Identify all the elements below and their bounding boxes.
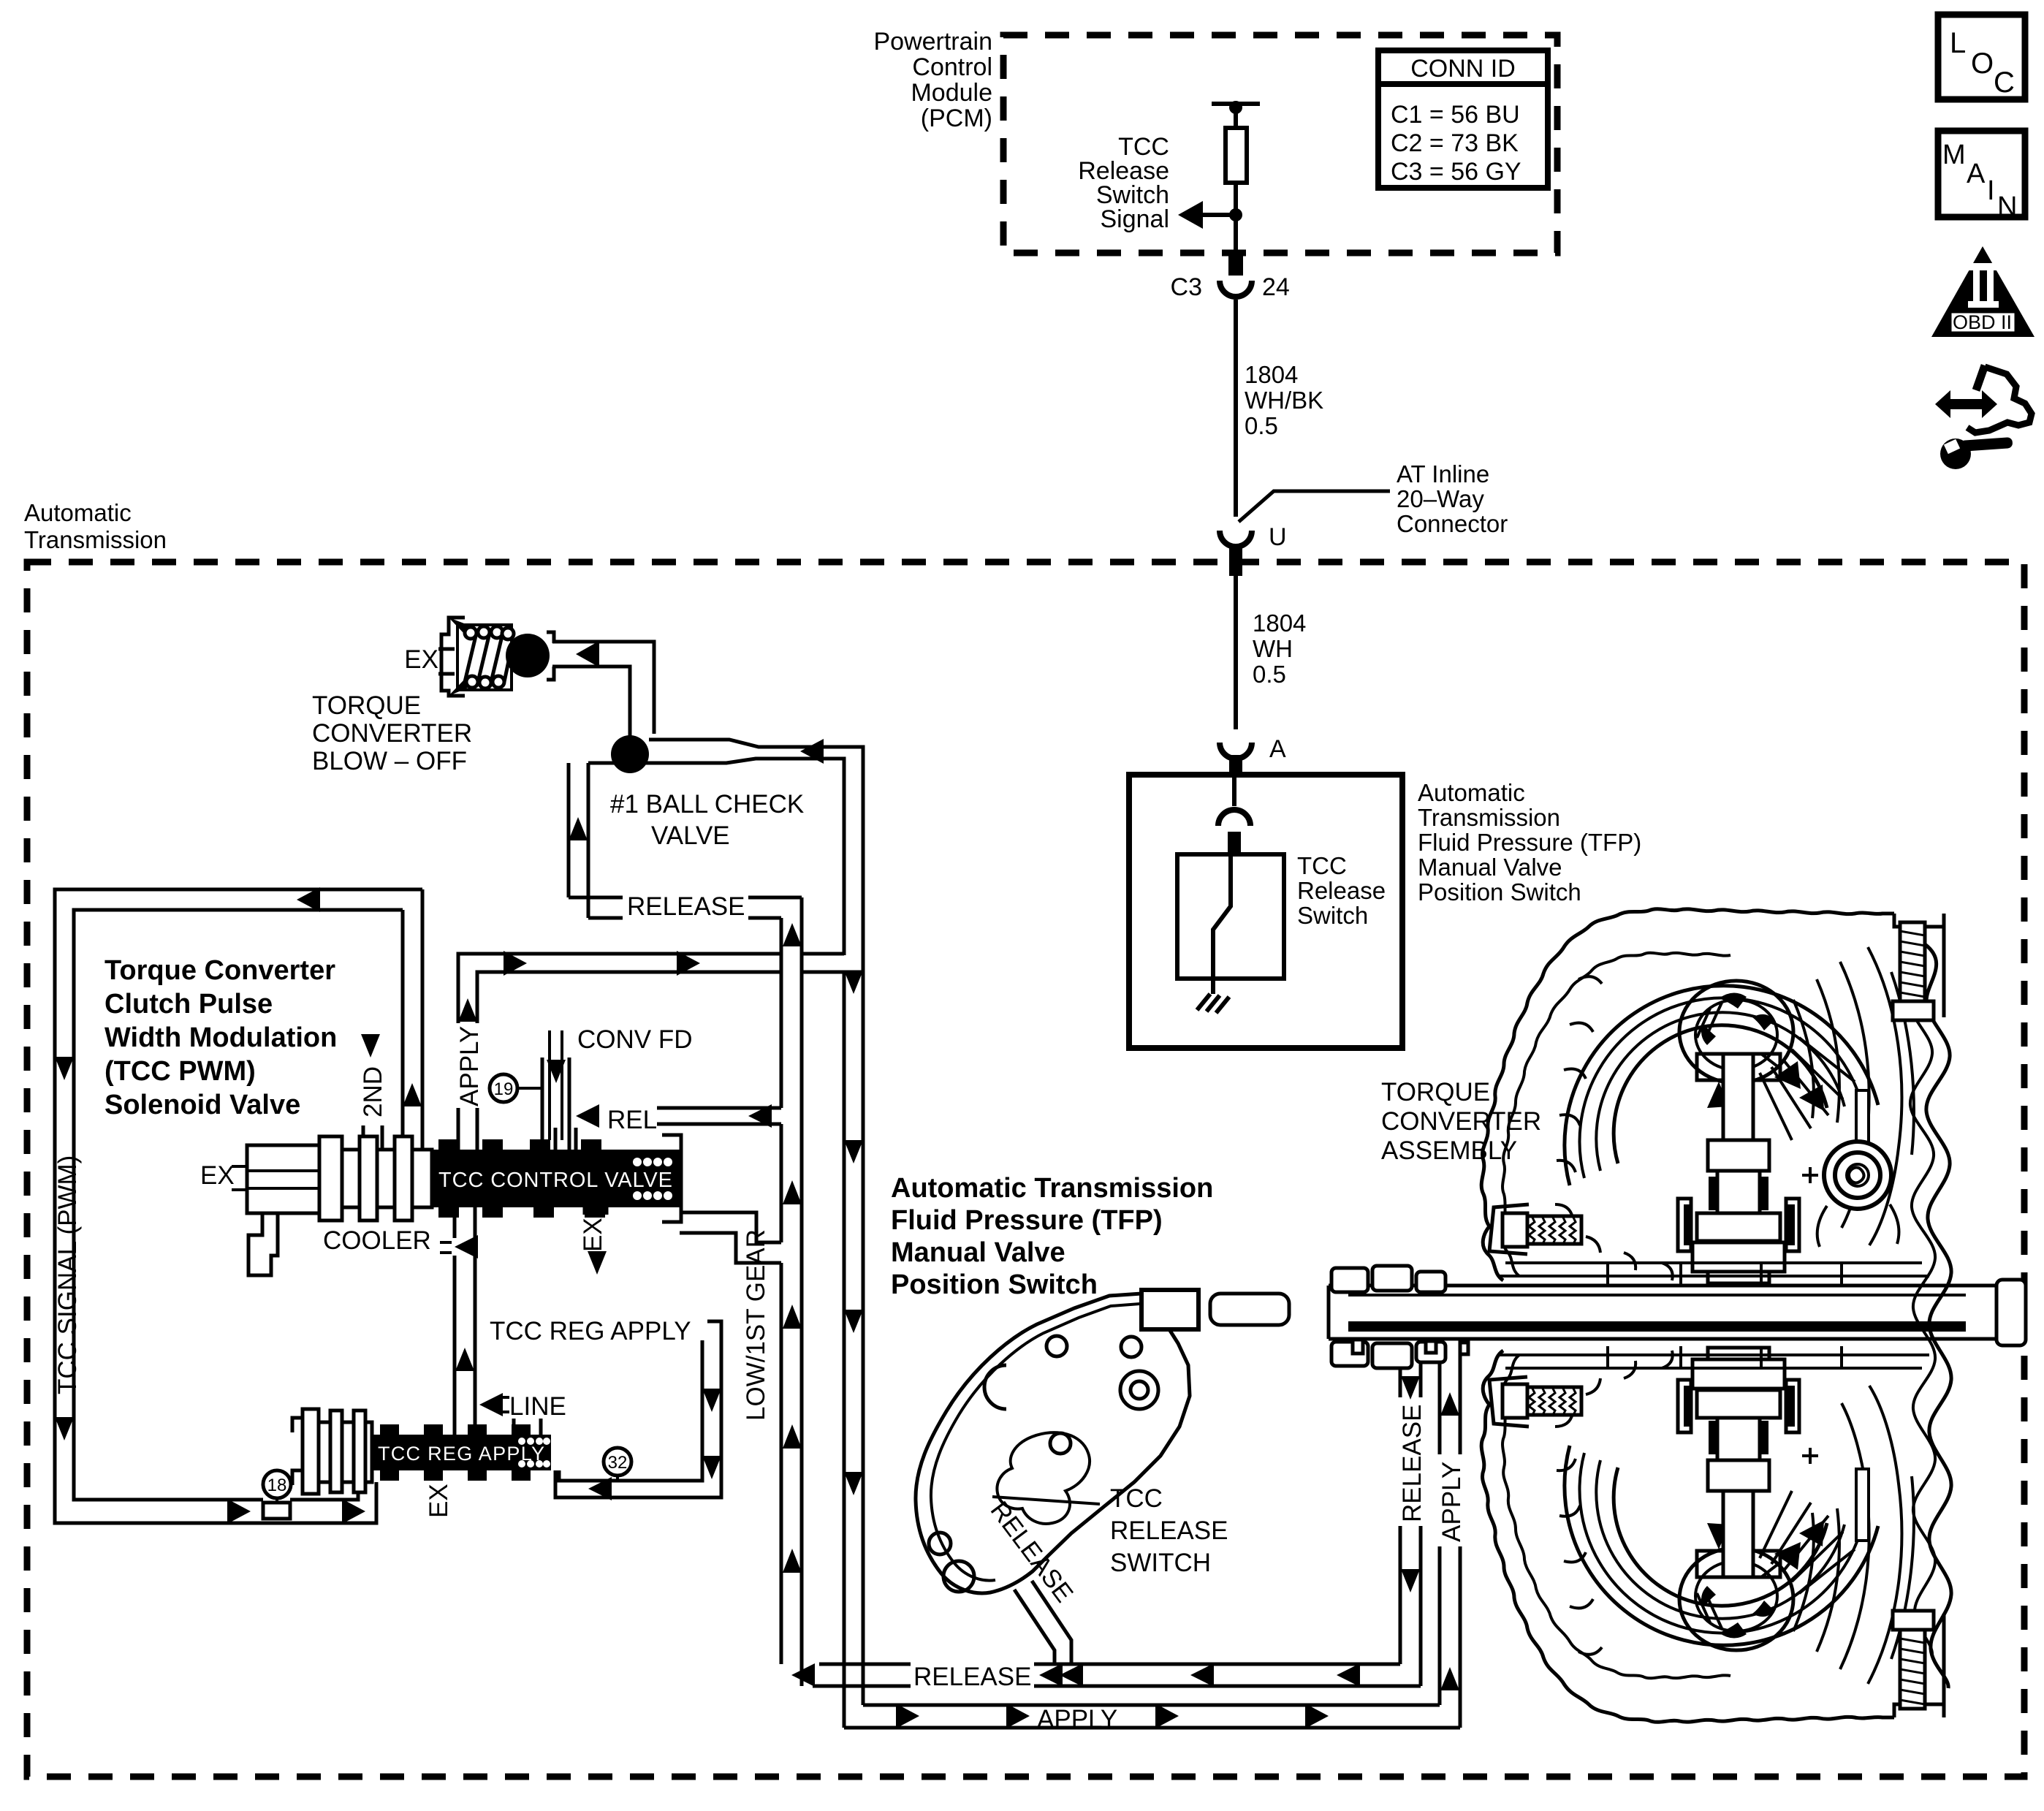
svg-text:Control: Control [912,53,992,81]
svg-text:RELEASE: RELEASE [1110,1516,1228,1545]
svg-text:CONN ID: CONN ID [1410,55,1516,83]
svg-text:Switch: Switch [1297,902,1368,929]
svg-text:Clutch Pulse: Clutch Pulse [105,989,273,1020]
svg-text:2ND: 2ND [359,1066,387,1117]
svg-text:U: U [1269,523,1287,551]
svg-text:C: C [1994,67,2015,99]
svg-text:TORQUE: TORQUE [1381,1078,1490,1106]
svg-text:CONVERTER: CONVERTER [1381,1107,1541,1136]
svg-text:1804: 1804 [1253,610,1306,637]
svg-text:TCC: TCC [1110,1484,1163,1513]
svg-text:32: 32 [608,1453,628,1473]
svg-text:TCC: TCC [1297,852,1347,879]
svg-text:APPLY: APPLY [455,1026,484,1106]
svg-text:EX: EX [200,1161,235,1190]
svg-text:L: L [1950,27,1966,59]
svg-text:C2 = 73 BK: C2 = 73 BK [1391,129,1519,157]
svg-text:Connector: Connector [1397,510,1508,537]
svg-text:SWITCH: SWITCH [1110,1549,1211,1577]
svg-text:TORQUE: TORQUE [312,691,421,720]
svg-text:Manual Valve: Manual Valve [1418,854,1562,881]
svg-text:(PCM): (PCM) [921,105,992,132]
svg-text:VALVE: VALVE [651,821,730,850]
svg-text:Fluid Pressure (TFP): Fluid Pressure (TFP) [891,1205,1163,1236]
svg-text:Width Modulation: Width Modulation [105,1022,337,1053]
svg-text:1804: 1804 [1245,361,1298,388]
svg-text:APPLY: APPLY [1437,1462,1466,1542]
svg-text:Position Switch: Position Switch [1418,878,1581,905]
svg-text:N: N [1997,191,2017,222]
svg-text:Release: Release [1297,877,1386,904]
svg-text:C1 = 56 BU: C1 = 56 BU [1391,101,1520,129]
svg-text:EX: EX [425,1484,453,1518]
svg-text:RELEASE: RELEASE [627,892,745,921]
svg-text:RELEASE: RELEASE [1398,1405,1426,1522]
svg-text:Solenoid Valve: Solenoid Valve [105,1090,300,1120]
svg-text:BLOW – OFF: BLOW – OFF [312,747,467,775]
svg-text:20–Way: 20–Way [1397,485,1484,512]
svg-text:OBD II: OBD II [1953,311,2012,333]
svg-text:O: O [1971,48,1994,80]
svg-text:Manual Valve: Manual Valve [891,1237,1065,1268]
svg-text:M: M [1942,140,1966,170]
svg-text:WH/BK: WH/BK [1245,387,1323,414]
svg-text:LINE: LINE [509,1392,566,1421]
svg-text:EX: EX [579,1218,607,1252]
svg-text:I: I [1987,175,1995,206]
svg-text:#1 BALL CHECK: #1 BALL CHECK [610,790,804,819]
svg-text:0.5: 0.5 [1253,661,1286,688]
svg-text:TCC CONTROL VALVE: TCC CONTROL VALVE [438,1169,672,1192]
svg-text:WH: WH [1253,635,1293,662]
svg-text:Position Switch: Position Switch [891,1269,1098,1300]
svg-text:Fluid Pressure (TFP): Fluid Pressure (TFP) [1418,829,1641,856]
svg-text:CONVERTER: CONVERTER [312,719,472,748]
svg-text:A: A [1967,159,1986,189]
svg-text:0.5: 0.5 [1245,412,1278,439]
svg-text:(TCC PWM): (TCC PWM) [105,1056,256,1087]
svg-text:ASSEMBLY: ASSEMBLY [1381,1136,1517,1165]
svg-text:TCC SIGNAL (PWM): TCC SIGNAL (PWM) [53,1155,82,1394]
svg-text:C3 = 56 GY: C3 = 56 GY [1391,158,1521,186]
svg-text:RELEASE: RELEASE [913,1663,1031,1691]
svg-text:A: A [1269,735,1286,763]
svg-text:COOLER: COOLER [323,1226,431,1255]
svg-text:Automatic: Automatic [1418,779,1525,806]
svg-text:LOW/1ST GEAR: LOW/1ST GEAR [742,1229,770,1421]
svg-text:REL: REL [607,1106,657,1134]
svg-text:18: 18 [267,1476,287,1495]
svg-text:TCC REG APPLY: TCC REG APPLY [378,1443,544,1465]
svg-text:19: 19 [494,1079,514,1099]
svg-text:Powertrain: Powertrain [873,28,992,56]
svg-text:AT Inline: AT Inline [1397,460,1489,487]
svg-text:Module: Module [911,79,992,107]
svg-text:Automatic Transmission: Automatic Transmission [891,1173,1213,1204]
svg-text:Torque Converter: Torque Converter [105,955,335,986]
svg-text:24: 24 [1262,273,1290,301]
svg-text:EX: EX [404,645,438,674]
svg-text:C3: C3 [1171,273,1202,301]
svg-text:Transmission: Transmission [24,526,167,553]
svg-text:TCC REG APPLY: TCC REG APPLY [490,1317,691,1345]
svg-text:CONV FD: CONV FD [577,1025,693,1054]
svg-text:Signal: Signal [1100,205,1169,233]
svg-text:Transmission: Transmission [1418,804,1560,831]
svg-text:Automatic: Automatic [24,499,132,526]
